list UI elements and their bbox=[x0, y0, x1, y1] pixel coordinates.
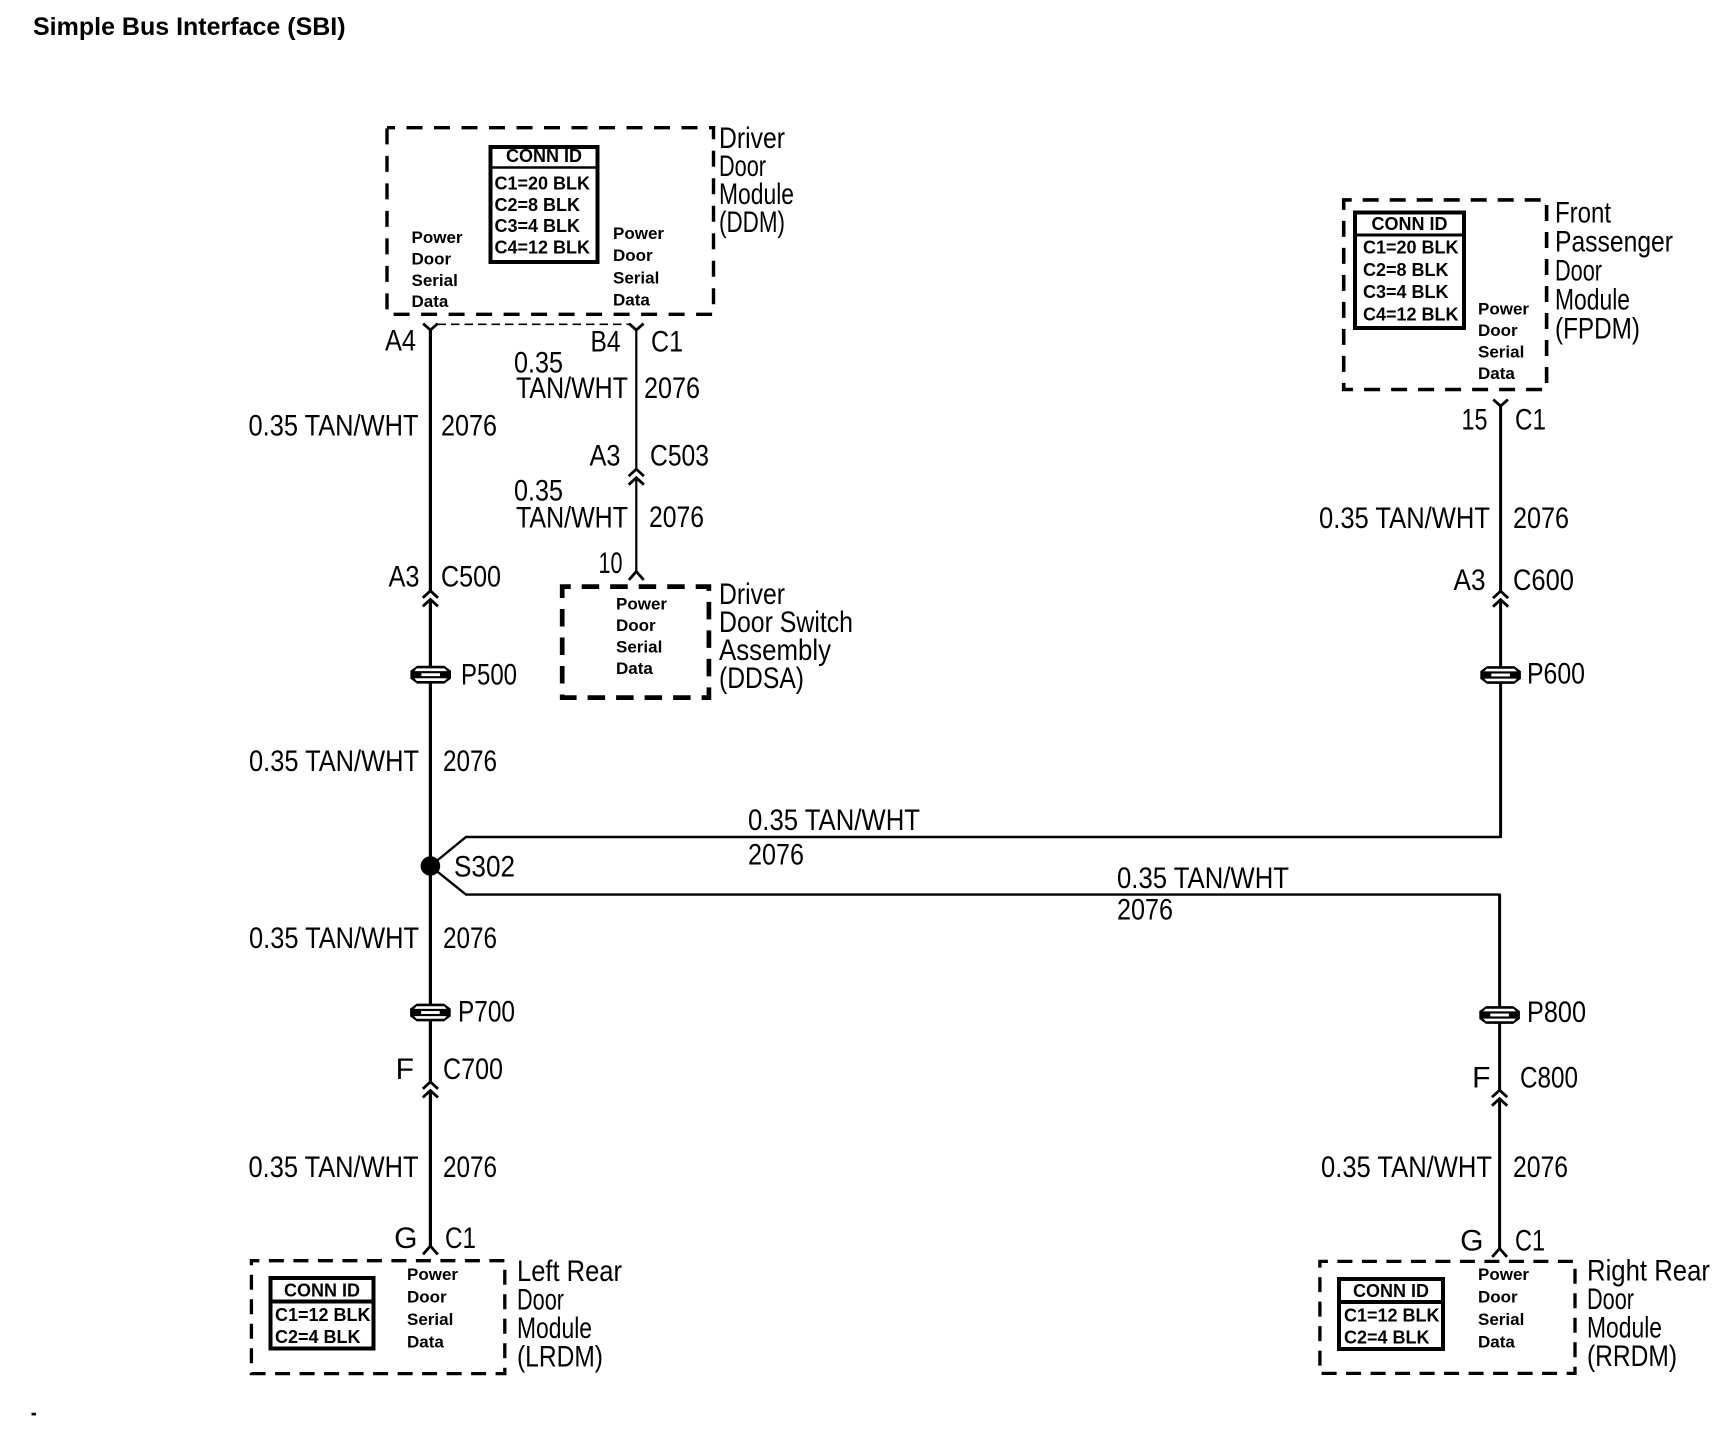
svg-text:TAN/WHT: TAN/WHT bbox=[516, 372, 628, 405]
grommet P700 bbox=[410, 1004, 451, 1022]
svg-text:P600: P600 bbox=[1527, 658, 1585, 691]
svg-text:(DDM): (DDM) bbox=[719, 206, 785, 239]
svg-text:0.35 TAN/WHT: 0.35 TAN/WHT bbox=[1319, 502, 1490, 535]
svg-text:Door: Door bbox=[1478, 321, 1518, 340]
stray mark (scan artifact dot) bbox=[32, 1413, 37, 1416]
svg-text:C1: C1 bbox=[651, 326, 683, 359]
FPDM module name bbox=[1555, 197, 1673, 346]
svg-text:A3: A3 bbox=[1454, 564, 1486, 597]
svg-text:Power: Power bbox=[407, 1265, 458, 1284]
RRDM net label Power Door Serial Data bbox=[1478, 1265, 1529, 1352]
DDM connector C1 dashed link line between pins A4 and B4 bbox=[438, 323, 630, 325]
pin fork 10 at DDSA bbox=[629, 572, 644, 580]
svg-text:(RRDM): (RRDM) bbox=[1587, 1340, 1677, 1373]
svg-text:C1=20 BLK: C1=20 BLK bbox=[495, 174, 591, 194]
svg-text:2076: 2076 bbox=[1513, 1151, 1568, 1184]
DDSA net label Power Door Serial Data bbox=[616, 595, 667, 679]
svg-text:C700: C700 bbox=[443, 1053, 503, 1086]
DDM CONN ID table bbox=[490, 146, 598, 262]
svg-text:Data: Data bbox=[412, 292, 449, 311]
pin fork B4 bbox=[629, 324, 644, 330]
svg-text:0.35 TAN/WHT: 0.35 TAN/WHT bbox=[249, 410, 419, 443]
svg-text:C800: C800 bbox=[1520, 1062, 1578, 1095]
svg-text:C2=4 BLK: C2=4 BLK bbox=[275, 1327, 361, 1347]
FPDM net label Power Door Serial Data bbox=[1478, 300, 1529, 384]
svg-text:Data: Data bbox=[616, 659, 653, 678]
svg-text:(DDSA): (DDSA) bbox=[719, 662, 804, 695]
svg-text:2076: 2076 bbox=[443, 745, 497, 778]
svg-text:0.35 TAN/WHT: 0.35 TAN/WHT bbox=[748, 804, 920, 837]
svg-text:C3=4 BLK: C3=4 BLK bbox=[1363, 282, 1449, 302]
DDM net label Power Door Serial Data (pin B4) bbox=[613, 224, 664, 310]
svg-text:A3: A3 bbox=[389, 561, 420, 594]
pin fork G at LRDM bbox=[423, 1246, 438, 1254]
svg-text:2076: 2076 bbox=[441, 410, 497, 443]
svg-text:CONN ID: CONN ID bbox=[284, 1281, 360, 1301]
svg-text:S302: S302 bbox=[454, 851, 515, 884]
grommet P500 bbox=[410, 666, 451, 684]
svg-text:F: F bbox=[396, 1053, 414, 1086]
svg-text:G: G bbox=[1460, 1225, 1483, 1258]
module U3 Left Rear Door Module (LRDM) dashed box bbox=[251, 1261, 504, 1374]
wire W4 from splice S302 to RRDM (lower branch) bbox=[436, 871, 1500, 895]
svg-text:C600: C600 bbox=[1513, 564, 1574, 597]
svg-text:Door: Door bbox=[407, 1288, 447, 1307]
svg-text:C1=20 BLK: C1=20 BLK bbox=[1363, 238, 1459, 258]
svg-text:B4: B4 bbox=[591, 326, 621, 359]
LRDM module name bbox=[517, 1255, 622, 1374]
FPDM CONN ID table bbox=[1354, 213, 1464, 329]
svg-text:2076: 2076 bbox=[443, 1151, 497, 1184]
svg-text:0.35 TAN/WHT: 0.35 TAN/WHT bbox=[249, 1151, 419, 1184]
svg-text:A3: A3 bbox=[590, 440, 621, 473]
svg-text:C500: C500 bbox=[441, 561, 501, 594]
wire W3 from splice S302 to FPDM (upper branch) bbox=[436, 837, 1501, 862]
svg-text:2076: 2076 bbox=[649, 501, 704, 534]
svg-text:P500: P500 bbox=[461, 659, 517, 692]
svg-text:C1=12 BLK: C1=12 BLK bbox=[275, 1305, 371, 1325]
svg-text:CONN ID: CONN ID bbox=[1372, 214, 1448, 234]
svg-text:Serial: Serial bbox=[1478, 1310, 1524, 1329]
svg-text:Power: Power bbox=[1478, 1265, 1529, 1284]
svg-text:Door: Door bbox=[412, 250, 452, 269]
svg-text:Door: Door bbox=[613, 246, 653, 265]
svg-text:Serial: Serial bbox=[412, 271, 458, 290]
svg-text:Serial: Serial bbox=[1478, 343, 1524, 362]
inline connector C800 chevrons bbox=[1492, 1090, 1507, 1106]
svg-text:C3=4 BLK: C3=4 BLK bbox=[495, 216, 581, 236]
svg-text:(LRDM): (LRDM) bbox=[517, 1341, 603, 1374]
svg-text:P700: P700 bbox=[458, 996, 515, 1029]
svg-text:C1=12 BLK: C1=12 BLK bbox=[1344, 1306, 1440, 1326]
svg-text:G: G bbox=[394, 1222, 417, 1255]
module U4 Front Passenger Door Module (FPDM) dashed box bbox=[1344, 200, 1547, 390]
inline connector C600 chevrons bbox=[1493, 591, 1508, 607]
svg-text:C1: C1 bbox=[1515, 1225, 1545, 1258]
svg-text:15: 15 bbox=[1462, 404, 1488, 437]
svg-text:Serial: Serial bbox=[616, 638, 662, 657]
wire W2 from DDM B4 down to DDSA bbox=[635, 329, 637, 470]
svg-text:0.35 TAN/WHT: 0.35 TAN/WHT bbox=[249, 922, 419, 955]
svg-text:Power: Power bbox=[613, 224, 664, 243]
svg-text:C1: C1 bbox=[1515, 404, 1546, 437]
wire W3 vertical from FPDM pin 15 down bbox=[1499, 405, 1502, 592]
svg-text:C4=12 BLK: C4=12 BLK bbox=[495, 237, 591, 257]
svg-text:Door: Door bbox=[616, 616, 656, 635]
svg-text:Data: Data bbox=[1478, 1333, 1515, 1352]
svg-text:C2=4 BLK: C2=4 BLK bbox=[1344, 1328, 1430, 1348]
svg-text:C2=8 BLK: C2=8 BLK bbox=[495, 195, 581, 215]
grommet P600 bbox=[1480, 666, 1521, 684]
grommet P800 bbox=[1479, 1006, 1520, 1024]
svg-text:Data: Data bbox=[407, 1333, 444, 1352]
svg-text:Power: Power bbox=[412, 228, 463, 247]
svg-text:0.35 TAN/WHT: 0.35 TAN/WHT bbox=[1117, 862, 1289, 895]
svg-text:C2=8 BLK: C2=8 BLK bbox=[1363, 260, 1449, 280]
DDM module name bbox=[719, 122, 794, 239]
svg-text:Simple Bus Interface (SBI): Simple Bus Interface (SBI) bbox=[33, 13, 346, 41]
inline connector C700 chevrons bbox=[423, 1082, 438, 1098]
svg-text:0.35 TAN/WHT: 0.35 TAN/WHT bbox=[1321, 1151, 1492, 1184]
svg-text:CONN ID: CONN ID bbox=[506, 146, 582, 166]
svg-text:2076: 2076 bbox=[1513, 502, 1569, 535]
svg-text:(FPDM): (FPDM) bbox=[1555, 313, 1640, 346]
svg-text:2076: 2076 bbox=[1117, 894, 1173, 927]
pin fork 15 at FPDM bbox=[1493, 400, 1508, 406]
svg-text:TAN/WHT: TAN/WHT bbox=[516, 502, 628, 535]
svg-text:0.35 TAN/WHT: 0.35 TAN/WHT bbox=[249, 745, 419, 778]
RRDM module name bbox=[1587, 1255, 1710, 1374]
svg-text:C1: C1 bbox=[445, 1222, 476, 1255]
svg-text:Power: Power bbox=[1478, 300, 1529, 319]
pin fork G at RRDM bbox=[1492, 1249, 1507, 1257]
module U2 Driver Door Switch Assembly (DDSA) dashed box bbox=[562, 587, 709, 698]
RRDM CONN ID table bbox=[1338, 1279, 1443, 1349]
svg-text:F: F bbox=[1472, 1062, 1490, 1095]
module U5 Right Rear Door Module (RRDM) dashed box bbox=[1320, 1261, 1575, 1373]
LRDM net label Power Door Serial Data bbox=[407, 1265, 458, 1352]
svg-text:C4=12 BLK: C4=12 BLK bbox=[1363, 304, 1459, 324]
svg-text:2076: 2076 bbox=[748, 839, 804, 872]
DDSA module name bbox=[719, 578, 853, 695]
svg-text:Serial: Serial bbox=[407, 1310, 453, 1329]
svg-text:Door: Door bbox=[1478, 1288, 1518, 1307]
splice S302 dot bbox=[421, 856, 441, 876]
inline connector C503 chevrons bbox=[629, 469, 644, 485]
svg-text:Power: Power bbox=[616, 595, 667, 614]
svg-text:2076: 2076 bbox=[644, 372, 700, 405]
svg-text:2076: 2076 bbox=[443, 922, 497, 955]
svg-text:10: 10 bbox=[599, 547, 623, 580]
wire W1 from DDM A4 down to splice S302 and on to LRDM bbox=[429, 329, 432, 591]
svg-text:A4: A4 bbox=[385, 325, 416, 358]
svg-text:Serial: Serial bbox=[613, 269, 659, 288]
pin fork A4 bbox=[423, 324, 438, 330]
svg-text:Data: Data bbox=[1478, 364, 1515, 383]
svg-text:CONN ID: CONN ID bbox=[1353, 1281, 1429, 1301]
DDM net label Power Door Serial Data (pin A4) bbox=[412, 228, 463, 311]
inline connector C500 chevrons bbox=[423, 591, 438, 607]
svg-text:P800: P800 bbox=[1527, 996, 1586, 1029]
svg-text:C503: C503 bbox=[650, 440, 709, 473]
LRDM CONN ID table bbox=[270, 1278, 374, 1349]
svg-text:Data: Data bbox=[613, 291, 650, 310]
module U1 Driver Door Module (DDM) dashed box bbox=[387, 128, 714, 315]
